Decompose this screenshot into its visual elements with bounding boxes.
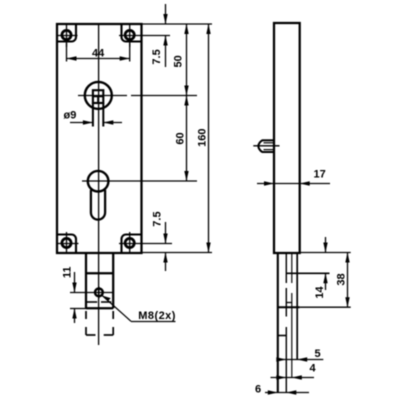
svg-text:60: 60	[175, 132, 187, 144]
dimension 7.5 bottom	[151, 211, 167, 271]
side view lower line L2	[285, 253, 287, 283]
svg-text:11: 11	[61, 266, 73, 278]
case bottom extension line	[300, 252, 351, 254]
tab hole M8	[95, 289, 103, 297]
dimension o9	[64, 110, 123, 125]
dimension 6	[255, 384, 309, 396]
dimension 160	[197, 24, 211, 253]
hub center extension line	[131, 95, 197, 97]
follower neck right line	[102, 103, 104, 127]
svg-text:14: 14	[314, 285, 326, 298]
dimension 50	[173, 24, 189, 96]
dimension 5	[276, 348, 323, 362]
side view hidden edge connector	[287, 302, 292, 304]
screw hole bottom-right	[119, 232, 172, 253]
euro cylinder hole	[88, 171, 109, 220]
svg-text:44: 44	[92, 47, 105, 59]
dimension 60	[175, 96, 189, 182]
svg-text:6: 6	[255, 384, 261, 396]
svg-text:17: 17	[314, 169, 326, 181]
svg-text:4: 4	[310, 363, 317, 375]
spindle hub circle	[85, 82, 112, 109]
side view lower line L1	[277, 253, 279, 393]
follower neck left line	[92, 103, 94, 127]
square spindle hole	[93, 90, 103, 103]
side view cross line y307	[278, 306, 300, 308]
dimension 11	[61, 266, 76, 323]
dimension 14	[314, 237, 328, 299]
dimension 44	[67, 43, 130, 62]
tab hidden edge dashes	[87, 301, 97, 303]
square hole center divider	[97, 96, 99, 103]
dimension 17	[257, 169, 330, 186]
side view lower line L3	[291, 253, 293, 283]
side view spindle hub protrusion	[253, 140, 279, 152]
vertical centerline	[98, 24, 100, 345]
front view plate outline	[57, 24, 142, 253]
svg-text:ø9: ø9	[64, 110, 77, 122]
svg-text:50: 50	[173, 55, 185, 67]
side view lower line L4	[296, 253, 298, 360]
screw hole bottom-left	[57, 232, 79, 253]
svg-text:M8(2x): M8(2x)	[138, 310, 176, 322]
svg-text:5: 5	[315, 348, 321, 360]
screw hole top-left	[57, 24, 78, 47]
side view case outline	[274, 23, 300, 253]
tab end extension line	[70, 308, 86, 310]
dimension 4	[271, 363, 317, 380]
bottom tab outline	[86, 253, 113, 308]
svg-text:160: 160	[197, 128, 209, 146]
dimension 7.5 top	[151, 4, 168, 67]
bottom edge extension line	[142, 252, 213, 254]
cylinder horizontal crosshair and extension	[82, 180, 197, 182]
side view cross line y273	[286, 272, 329, 274]
square hole inner shelf line	[93, 95, 103, 97]
screw hole top-right	[119, 24, 170, 47]
leader M8(2x)	[102, 296, 176, 322]
tab hidden dashed outline	[86, 311, 113, 335]
tab hole crosshair	[70, 292, 113, 294]
side view cross line y335	[278, 335, 287, 337]
svg-text:38: 38	[335, 273, 347, 285]
top edge extension line	[142, 23, 213, 25]
hub horizontal crosshair	[78, 95, 127, 97]
svg-text:7.5: 7.5	[151, 49, 163, 64]
svg-text:7.5: 7.5	[151, 211, 163, 226]
dimension 38	[335, 253, 349, 308]
